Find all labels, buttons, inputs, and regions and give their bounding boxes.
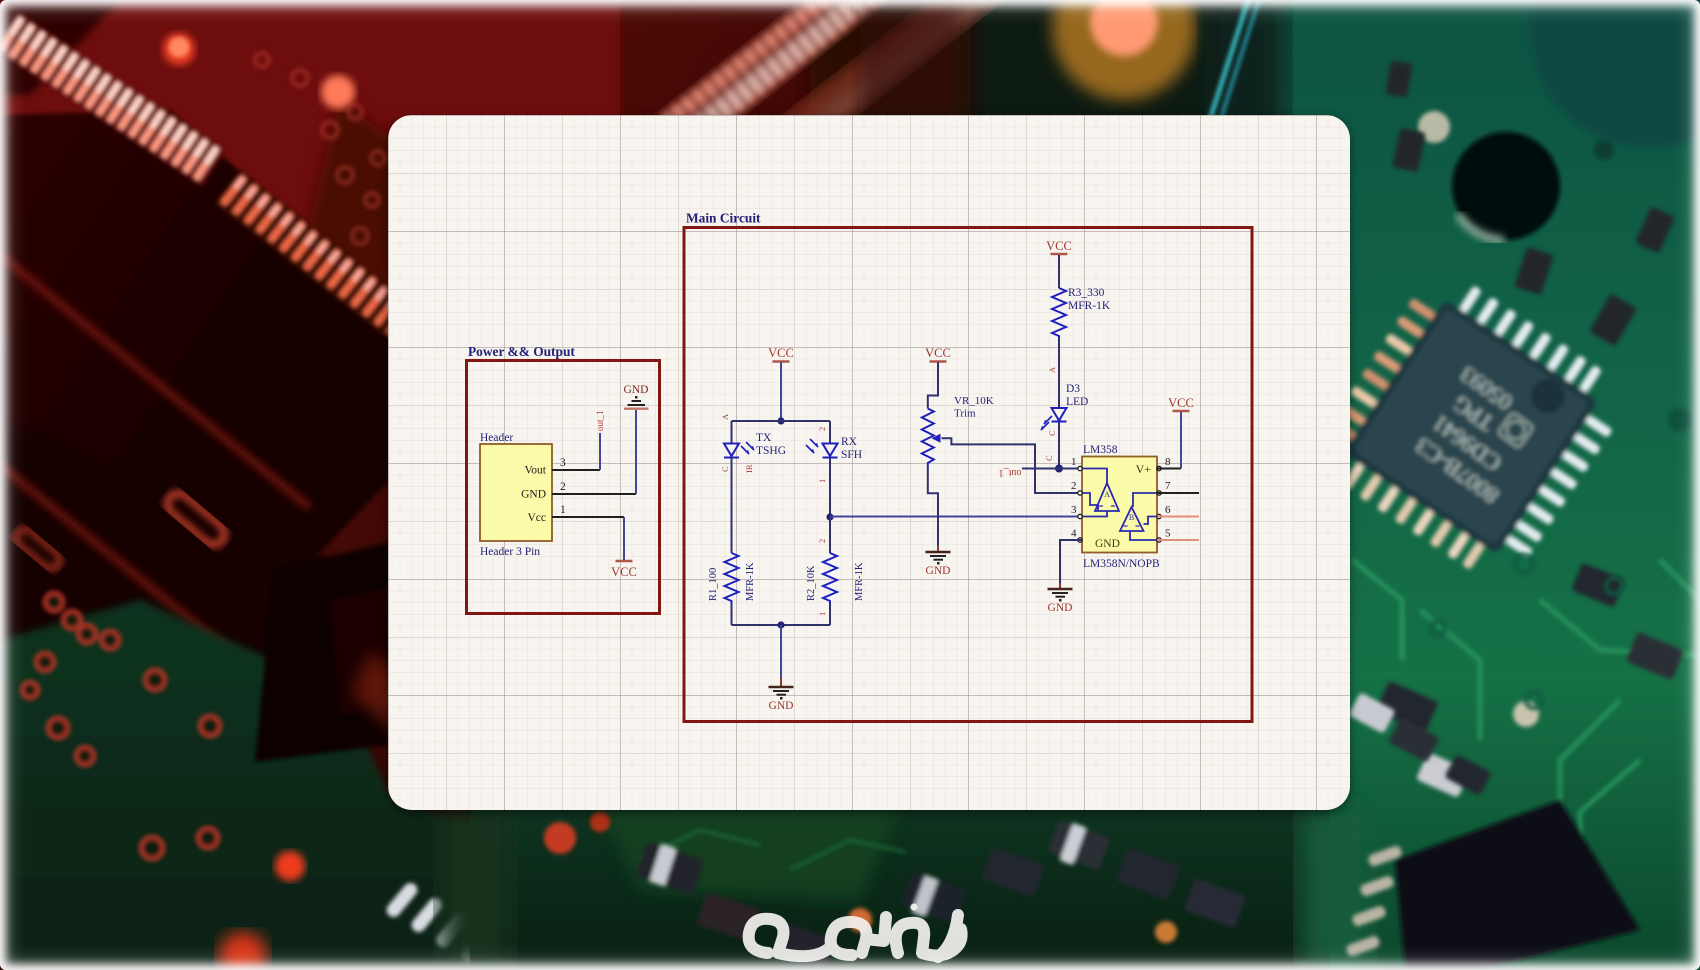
wire D3 cathode to node [1058, 423, 1060, 469]
wire VCC down to node [780, 362, 782, 421]
junction node bottom rail [777, 621, 784, 628]
wire TX anode [731, 421, 733, 443]
op-amp U1 pin 8 stub [1157, 468, 1181, 470]
photodiode RX (SFH receiver) [806, 439, 838, 458]
left: dark chip below comb [0, 110, 420, 760]
power VCC (trimmer branch) [925, 346, 951, 362]
op-amp U1 pin 7 stub (n.c.) [1157, 492, 1199, 494]
top strip: red bokeh pin row [660, 0, 918, 153]
op-amp U1 pin 6 stub (n.c.) [1157, 516, 1199, 518]
potentiometer VR_10K body [922, 409, 934, 467]
wire TX cathode to R1 [731, 458, 733, 553]
connector J1 pin 1 stub [552, 516, 624, 518]
op-amp U1 internal wiring [1082, 469, 1157, 541]
bottom right dark chip [1395, 800, 1640, 970]
ground GND (op-amp) [1048, 583, 1073, 614]
wire R1 bottom [731, 604, 733, 625]
wire pin3 to net out_1 [599, 433, 601, 470]
wire RX cathode to node [829, 458, 831, 517]
QFP chip [1305, 261, 1638, 594]
wire wiper to op-amp pin 2 [942, 438, 1083, 493]
connector J1 body [480, 444, 552, 541]
power VCC (power block) [611, 561, 637, 579]
wire bottom rail R1-R2 [732, 624, 831, 626]
wire node to net out_1 [1022, 468, 1059, 470]
top right cyan traces [1206, 0, 1260, 134]
connector J1 pin 2 stub [552, 493, 636, 495]
wire VCC to R3 [1058, 255, 1060, 288]
resistor R1_100 [725, 553, 739, 604]
red bokeh circle on chip [163, 33, 195, 65]
right: dark teal big circle top [1530, 0, 1700, 148]
ground GND (power block) [624, 384, 649, 409]
left: red pcb upper area [0, 0, 620, 300]
pin comb band A [0, 12, 226, 187]
base fills [0, 0, 900, 970]
silver pins bottom-left of panel [384, 880, 520, 970]
resistor R3_330 [1052, 288, 1066, 338]
resistor R2_10K [823, 553, 837, 604]
wire pin 4 to GND [1060, 540, 1082, 588]
red pill highlights [163, 489, 229, 550]
wire VCC to pin 8 [1180, 412, 1182, 469]
chip edge highlight streaks [0, 255, 310, 652]
wire GND to pin 2 [635, 410, 637, 494]
ground GND (trimmer) [926, 546, 951, 577]
top middle: amber bokeh [1052, 0, 1196, 100]
op-amp U1 pin circles [1078, 466, 1161, 542]
wire node to R2 [829, 517, 831, 553]
wire trimmer bottom to GND [928, 467, 938, 551]
power VCC (op-amp V+) [1168, 396, 1194, 411]
op-amp U1 amplifier B triangle [1120, 507, 1144, 531]
watermark (Arabic) [749, 904, 962, 958]
dark connector block [255, 540, 425, 762]
sheet block Main Circuit frame [684, 228, 1252, 722]
wire RX node to op-amp pin 3 [830, 516, 1082, 518]
bottom-left dark green pcb [0, 600, 470, 970]
wire node to GND [780, 625, 782, 678]
power VCC (R3 branch) [1046, 239, 1072, 254]
op-amp U1 body [1082, 457, 1157, 553]
pin comb band B [214, 170, 429, 351]
right: small dark SMDs upper [1385, 60, 1675, 346]
junction node RX/R2 [826, 513, 833, 520]
ground GND (main, bottom) [769, 678, 794, 712]
wire VCC to trimmer [928, 362, 938, 409]
wire RX top [829, 421, 831, 443]
wire pin1 to VCC [623, 517, 625, 560]
wire top rail TX-RX [732, 420, 831, 422]
wire R3 to D3 [1058, 338, 1060, 407]
scattered red vias right of comb [255, 53, 385, 244]
bottom strip green pcb [470, 806, 1330, 970]
right mid/bottom traces + components [1420, 560, 1700, 840]
op-amp U1 amplifier A triangle [1095, 483, 1119, 511]
junction node TX/RX top [777, 417, 784, 424]
LED TX (TSHG emitter) [724, 442, 755, 458]
red-lit vias bottom-left [22, 593, 220, 859]
top-left corner dark chip above comb [0, 0, 120, 95]
LED D3 [1041, 408, 1067, 431]
sheet block Power && Output frame [467, 361, 660, 614]
power VCC (TX/RX branch) [768, 346, 794, 362]
potentiometer VR_10K wiper arrow [932, 434, 941, 443]
wire node to op-amp pin 1 [1059, 468, 1082, 470]
junction node D3/pin1 [1055, 465, 1063, 473]
connector J1 pin 3 stub [552, 469, 600, 471]
right side extra components [1348, 555, 1640, 870]
op-amp U1 pin 5 stub (n.c.) [1157, 539, 1199, 541]
wire R2 bottom [829, 604, 831, 625]
right: black hole [1452, 132, 1560, 240]
